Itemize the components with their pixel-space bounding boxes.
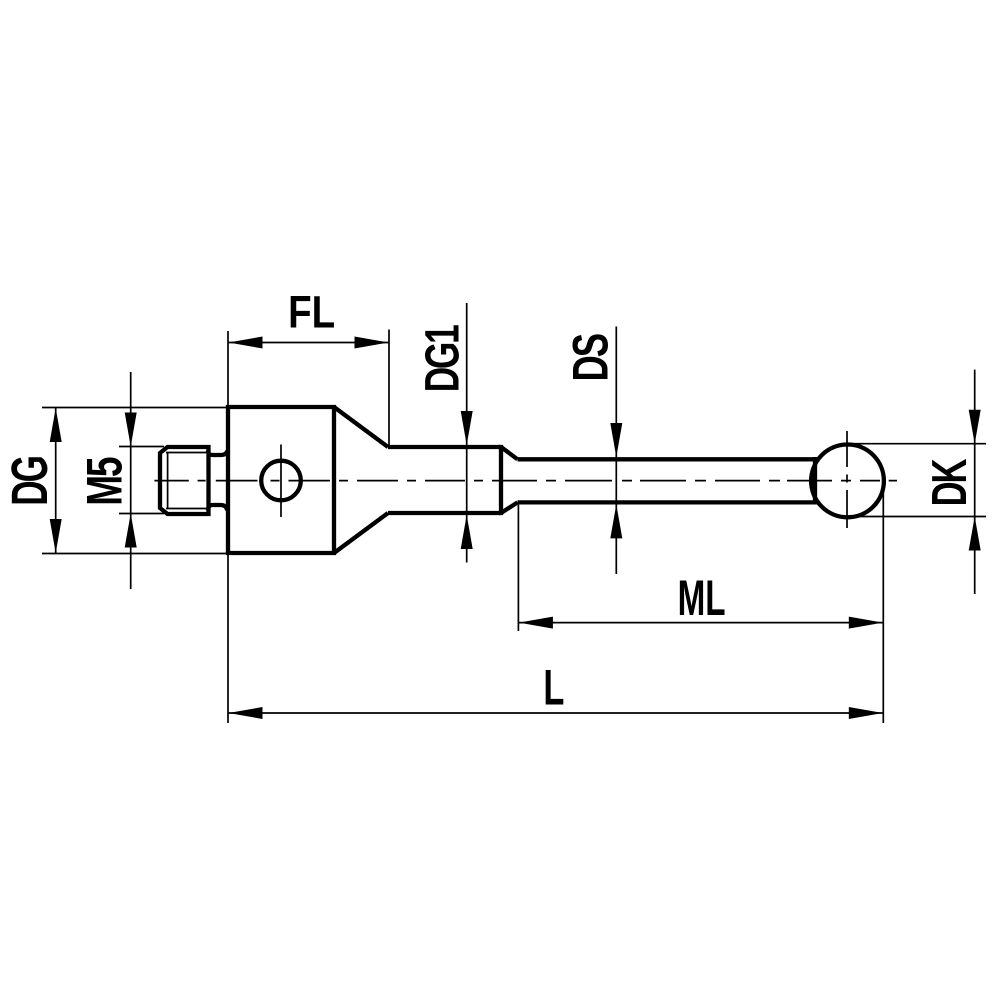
M5 dimension line — [130, 372, 132, 589]
DS dimension line — [615, 327, 617, 575]
stem end cap — [813, 457, 817, 505]
DG1 cylinder bottom edge — [388, 511, 501, 515]
DS arrow top pointing down — [610, 423, 622, 457]
neck top edge — [208, 451, 227, 456]
body rectangle — [228, 407, 334, 553]
cone to stem bottom — [501, 502, 518, 513]
svg-text:DK: DK — [923, 459, 977, 507]
thread minor diameter line bottom — [166, 508, 209, 510]
M5 extension line top — [119, 446, 164, 448]
DK extension line top — [851, 443, 986, 445]
ML arrow right — [849, 617, 883, 629]
svg-text:FL: FL — [288, 287, 335, 338]
M5 extension line bottom — [119, 513, 164, 515]
neck bottom edge — [208, 505, 227, 511]
DG1 dimension line — [466, 303, 468, 563]
stem top edge — [518, 457, 816, 461]
thread minor diameter line top — [166, 452, 209, 454]
svg-text:M5: M5 — [77, 457, 133, 506]
DK arrow bottom pointing up — [969, 517, 981, 551]
thread chamfer edge line — [167, 453, 169, 509]
ML dimension line — [518, 622, 883, 624]
DK extension line bottom — [860, 516, 986, 518]
svg-text:ML: ML — [678, 570, 726, 626]
FL arrow left — [229, 337, 263, 349]
M5 arrow bottom pointing up — [125, 514, 137, 548]
cone to stem top — [501, 447, 518, 459]
svg-text:DS: DS — [563, 334, 619, 381]
ML extension line left — [517, 505, 519, 631]
DG arrow down — [50, 519, 62, 553]
L arrow left — [229, 707, 263, 719]
threaded stub M5 outline — [160, 447, 209, 514]
FL arrow right — [355, 337, 389, 349]
ML arrow left — [519, 617, 553, 629]
taper bottom line — [334, 513, 388, 553]
svg-text:L: L — [543, 660, 564, 716]
DK arrow top pointing down — [969, 410, 981, 444]
DG1 cylinder top edge — [388, 445, 501, 449]
ball vertical centerline — [846, 431, 848, 528]
L dimension line — [228, 712, 883, 714]
centerline main axis — [154, 480, 897, 482]
FL extension line right — [388, 330, 390, 446]
L extension line left — [227, 555, 229, 723]
stem bottom edge — [518, 500, 816, 504]
svg-text:DG: DG — [1, 457, 58, 506]
ML and L extension line right — [882, 485, 884, 723]
cross hole circle — [261, 461, 301, 501]
DG arrow up — [50, 408, 62, 442]
DK dimension line — [974, 370, 976, 594]
DG extension line bottom — [42, 553, 228, 555]
FL dimension line — [228, 342, 389, 344]
FL extension line left — [227, 331, 229, 405]
DS arrow bottom pointing up — [610, 504, 622, 538]
svg-text:DG1: DG1 — [416, 325, 469, 392]
DG1 arrow bottom pointing up — [461, 515, 473, 549]
DG1 cylinder right edge — [499, 445, 503, 515]
DG1 arrow top pointing down — [461, 411, 473, 445]
cross hole vertical centerline — [280, 445, 282, 518]
M5 arrow top pointing down — [125, 413, 137, 447]
DG extension line top — [42, 407, 228, 409]
L arrow right — [849, 707, 883, 719]
ball — [811, 445, 884, 518]
taper top line — [334, 407, 388, 447]
DG dimension line — [55, 408, 57, 554]
